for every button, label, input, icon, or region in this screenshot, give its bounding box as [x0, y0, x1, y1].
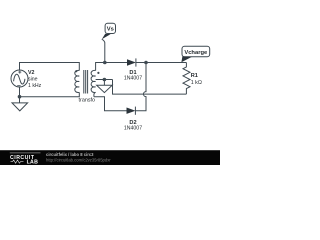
svg-text:Vs: Vs	[107, 27, 114, 33]
label D2 1N4007	[124, 120, 142, 131]
wire bottom-left rail primary to V2	[20, 92, 80, 96]
wire rail to D1 anode	[105, 62, 127, 64]
watermark logo CIRCUIT LAB	[10, 153, 41, 166]
ground under V2	[12, 97, 28, 111]
voltage source V2	[11, 70, 28, 87]
wire center tap to R1 bottom rail	[113, 80, 187, 95]
label D1 1N4007	[124, 70, 142, 81]
watermark text	[46, 152, 111, 163]
transformer primary coil	[75, 70, 80, 92]
wire D1 cathode to R1 top	[136, 62, 187, 64]
svg-text:1N4007: 1N4007	[124, 126, 142, 132]
wire secondary top to rail	[96, 63, 105, 71]
transformer secondary coil	[91, 70, 96, 92]
wire top-left rail V2 to transformer primary	[20, 63, 80, 71]
node junction at V2 bottom	[18, 95, 22, 99]
flag label Vcharge	[181, 46, 209, 62]
svg-text:V2: V2	[28, 70, 35, 76]
node junction Vs rail	[103, 61, 107, 65]
transformer core	[84, 70, 88, 94]
wire center tap	[96, 79, 113, 81]
label R1 1 kOhm	[191, 73, 202, 86]
svg-text:circuitfelix / labo 8 circ3: circuitfelix / labo 8 circ3	[46, 152, 94, 157]
label V2 value	[28, 70, 42, 89]
wire secondary bottom to D2 anode	[94, 97, 127, 111]
wire V2 bottom lead	[19, 87, 21, 97]
svg-text:LAB: LAB	[27, 160, 39, 166]
svg-text:transfo: transfo	[79, 97, 95, 103]
primary phase dot	[75, 70, 77, 72]
secondary phase dot	[97, 72, 99, 74]
wire Vs to top rail	[102, 39, 105, 62]
svg-text:1 kΩ: 1 kΩ	[191, 80, 202, 86]
svg-text:sine: sine	[28, 77, 38, 83]
svg-text:http://circuitlab.com/c2vz35r8: http://circuitlab.com/c2vz35r85pdxr	[46, 158, 111, 163]
watermark bar	[0, 150, 220, 165]
svg-text:R1: R1	[191, 73, 198, 79]
node junction output	[144, 61, 148, 65]
flag label Vs	[102, 23, 116, 39]
svg-text:Vcharge: Vcharge	[184, 50, 208, 56]
wire D2 cathode to output with hop over rail	[135, 63, 146, 111]
node junction center tap	[103, 78, 107, 82]
diode D1	[127, 58, 136, 66]
diode D2	[127, 107, 136, 115]
resistor R1	[183, 63, 190, 95]
svg-text:1 kHz: 1 kHz	[28, 83, 42, 89]
wire secondary bottom lead	[94, 92, 96, 96]
svg-text:1N4007: 1N4007	[124, 75, 142, 81]
ground center tap	[97, 80, 113, 93]
